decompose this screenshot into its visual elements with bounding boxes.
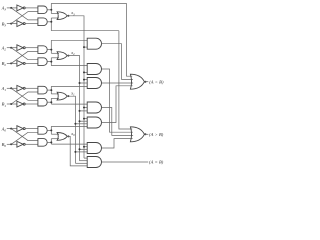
wire x3 tap y107.5 xyxy=(84,107,87,109)
wire A3B3' lower run xyxy=(51,30,119,32)
junction x2 tap junction y110.9 xyxy=(79,110,81,112)
wire A3'B3 top run xyxy=(51,2,126,4)
wire B0' to AND xyxy=(25,143,38,145)
wire B1' to AND xyxy=(25,103,38,105)
wire x2 tap y83.0 xyxy=(80,82,88,84)
wire x2 tap y160.7 xyxy=(80,160,88,162)
wire A2 cross to lower AND xyxy=(11,48,38,60)
wire x1 tap y123.8 xyxy=(75,123,87,125)
wire A1B1' jog vertical xyxy=(50,98,52,104)
wire A1'B1 to OR xyxy=(51,93,59,95)
junction A2'B2 branch xyxy=(50,49,52,51)
OR gate (A<B) output xyxy=(130,74,144,89)
wire x1 rail xyxy=(67,96,75,163)
junction x0 output node xyxy=(67,135,69,137)
wire A1B1' to OR xyxy=(51,97,59,99)
wire input A1 lead xyxy=(7,87,17,89)
wire input B3 lead xyxy=(7,23,17,25)
AND gate x3·A2'B2 xyxy=(87,38,101,49)
wire x3x2A1B1' to A>B OR xyxy=(102,108,134,136)
junction x3 tap junction y118.6 xyxy=(83,118,85,120)
wire x2 tap y121.2 xyxy=(80,120,88,122)
wire x2 tap y149.3 xyxy=(80,148,88,150)
wire B2' to AND xyxy=(25,62,38,64)
AND gate x3x2·A1'B1 xyxy=(87,78,101,89)
wire A0B0' jog vertical xyxy=(50,139,52,144)
wire A1' to AND xyxy=(25,87,38,89)
junction input B2 fanout xyxy=(10,62,12,64)
AND gate x3x2x1·A0'B0 xyxy=(87,117,101,128)
wire input B1 lead xyxy=(7,103,17,105)
inverter A0' xyxy=(17,126,23,132)
junction x3 tap junction y72.4 xyxy=(83,71,85,73)
AND gate A1B1' xyxy=(38,98,47,106)
junction x2 tap junction y83.0 xyxy=(79,82,81,84)
wire A3'B3 to OR xyxy=(51,13,59,15)
wire A3'B3 output stub xyxy=(47,9,51,11)
wire A3B3' to OR xyxy=(51,17,59,19)
wire A1'B1 jog vertical xyxy=(50,86,52,94)
wire A3B3' drop to A>B OR xyxy=(119,31,132,129)
junction x3 output node xyxy=(67,15,69,17)
AND gate x3x2x1·A0B0' xyxy=(87,143,101,154)
junction A0'B0 branch xyxy=(50,129,52,131)
wire x3 tap y72.4 xyxy=(84,71,87,73)
wire A2'B2 to AND#1 xyxy=(51,39,87,41)
wire B3' to AND xyxy=(25,23,38,25)
AND gate A0'B0 xyxy=(38,127,47,135)
wire A2B2' output stub xyxy=(47,61,51,63)
wire A3'B3 jog vertical xyxy=(50,3,52,13)
wire A2B2' to OR xyxy=(51,57,59,59)
wire A2' to AND xyxy=(25,47,38,49)
wire x3 tap y47.1 xyxy=(84,46,87,48)
wire x3A2'B2 to A<B OR xyxy=(102,44,133,80)
AND gate x3·A2B2' xyxy=(87,64,101,75)
wire x3 tap y146.7 xyxy=(84,146,87,148)
junction input A3 fanout xyxy=(10,7,12,9)
wire A0B0' to AND#6 xyxy=(51,143,87,145)
wire x3 tap y118.6 xyxy=(84,118,87,120)
wire A0B0' to OR xyxy=(51,138,59,140)
junction x2 output node xyxy=(67,55,69,57)
inverter B2' xyxy=(17,61,23,67)
wire A2'B2 to OR xyxy=(51,52,59,54)
svg-text:(A > B): (A > B) xyxy=(149,132,164,137)
wire (A>B) output lead xyxy=(144,133,148,135)
inverter B1' xyxy=(17,101,23,107)
junction input B0 fanout xyxy=(10,143,12,145)
junction x3 tap junction y79.6 xyxy=(83,79,85,81)
AND gate A2'B2 xyxy=(38,46,47,54)
AND gate A0B0' xyxy=(38,139,47,147)
AND gate A3'B3 xyxy=(38,6,47,14)
junction x1 tap junction y151.9 xyxy=(74,151,76,153)
OR gate x1 xyxy=(57,92,67,100)
AND gate A2B2' xyxy=(38,58,47,66)
inverter A2' xyxy=(17,45,23,51)
wire A3 cross to lower AND xyxy=(11,8,38,20)
wire A3B3' jog vertical xyxy=(50,18,52,31)
wire x3x2x1A0B0' to A>B OR xyxy=(102,139,133,148)
inverter A3' xyxy=(17,5,23,11)
junction A2B2' branch xyxy=(50,61,52,63)
AND gate A1'B1 xyxy=(38,86,47,94)
wire A0'B0 to OR xyxy=(51,133,59,135)
svg-text:(A < B): (A < B) xyxy=(149,79,164,84)
wire B3 cross to upper AND xyxy=(11,12,38,24)
wire x0 run to AND#7 xyxy=(67,136,87,166)
OR gate x2 xyxy=(57,52,67,60)
wire (A=B) output lead xyxy=(102,161,149,163)
inverter B3' xyxy=(17,21,23,27)
wire x3x2A1'B1 to A<B OR xyxy=(102,82,134,84)
junction (A<B) output node xyxy=(144,81,146,83)
junction x1 tap junction y123.8 xyxy=(74,123,76,125)
junction x3 tap junction y47.1 xyxy=(83,46,85,48)
wire x3 rail xyxy=(67,16,84,158)
wire x3 tap y79.6 xyxy=(84,79,87,81)
junction x1 output node xyxy=(67,95,69,97)
wire A0'B0 to AND#5 xyxy=(51,125,87,127)
wire A0 cross to lower AND xyxy=(11,129,38,141)
wire A3B3' output stub xyxy=(47,21,51,23)
wire A2B2' to AND#2 xyxy=(51,65,87,67)
wire input A3 lead xyxy=(7,7,17,9)
wire x3 tap y158.1 xyxy=(84,157,87,159)
wire A3'B3 drop to A<B OR xyxy=(127,3,133,76)
AND gate x3x2x1x0 (A=B) xyxy=(87,157,101,168)
wire A1 cross to lower AND xyxy=(11,88,38,100)
inverter B0' xyxy=(17,141,23,147)
wire A2B2' jog vertical xyxy=(50,58,52,66)
AND gate x3x2·A1B1' xyxy=(87,102,101,113)
wire x2 tap y110.9 xyxy=(80,110,88,112)
junction input A0 fanout xyxy=(10,128,12,130)
wire x3x2x1A0'B0 to A<B OR xyxy=(102,86,133,123)
wire input A0 lead xyxy=(7,128,17,130)
AND gate A3B3' xyxy=(38,18,47,26)
wire x2 rail xyxy=(67,56,79,161)
wire input B2 lead xyxy=(7,62,17,64)
wire A1'B1 to AND#3 xyxy=(51,85,87,87)
wire x3A2B2' to A>B OR xyxy=(102,69,133,132)
junction x3 tap junction y107.5 xyxy=(83,107,85,109)
junction input A1 fanout xyxy=(10,87,12,89)
wire A0'B0 jog vertical xyxy=(50,126,52,134)
junction A3B3' branch xyxy=(50,21,52,23)
wire A0' to AND xyxy=(25,128,38,130)
OR gate x3 xyxy=(57,12,67,20)
wire (A<B) output lead xyxy=(144,81,148,83)
wire A3' to AND xyxy=(25,7,38,9)
junction input B1 fanout xyxy=(10,103,12,105)
OR gate (A>B) output xyxy=(130,127,144,142)
wire A2'B2 jog vertical xyxy=(50,40,52,53)
wire x1 tap y163.3 xyxy=(75,162,87,164)
wire B1 cross to upper AND xyxy=(11,92,38,104)
wire A2'B2 output stub xyxy=(47,49,51,51)
junction input B3 fanout xyxy=(10,23,12,25)
wire input A2 lead xyxy=(7,47,17,49)
svg-text:(A = B): (A = B) xyxy=(149,160,164,165)
wire input B0 lead xyxy=(7,143,17,145)
wire A1B1' output stub xyxy=(47,101,51,103)
junction A0B0' branch xyxy=(50,141,52,143)
junction x2 tap junction y149.3 xyxy=(79,148,81,150)
wire A0B0' output stub xyxy=(47,141,51,143)
junction x2 tap junction y121.2 xyxy=(79,120,81,122)
OR gate x0 xyxy=(57,133,67,141)
junction A1B1' branch xyxy=(50,101,52,103)
wire B2 cross to upper AND xyxy=(11,51,38,63)
wire A1'B1 output stub xyxy=(47,89,51,91)
wire A0'B0 output stub xyxy=(47,129,51,131)
junction input A2 fanout xyxy=(10,47,12,49)
junction A3'B3 branch xyxy=(50,9,52,11)
wire A1B1' to AND#4 xyxy=(51,103,87,105)
junction (A>B) output node xyxy=(144,133,146,135)
junction x3 tap junction y146.7 xyxy=(83,146,85,148)
inverter A1' xyxy=(17,85,23,91)
junction A1'B1 branch xyxy=(50,89,52,91)
wire B0 cross to upper AND xyxy=(11,132,38,144)
wire x1 tap y151.9 xyxy=(75,151,87,153)
